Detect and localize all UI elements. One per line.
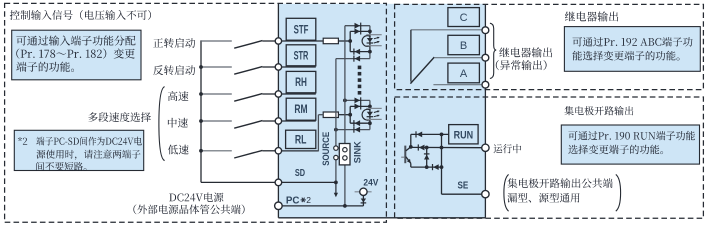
- svg-text:STF: STF: [294, 24, 309, 36]
- label high speed: [168, 91, 189, 101]
- optocoupler LED: [369, 106, 371, 123]
- terminal box RL: [286, 130, 316, 148]
- terminal circle B: [482, 54, 489, 61]
- junction SD rail: [334, 181, 338, 185]
- terminal box C: [448, 8, 480, 27]
- label multi-speed selection: [88, 112, 151, 122]
- optocoupler circle: [362, 36, 371, 47]
- note box 2 (*2): [14, 130, 143, 170]
- collector note box: [561, 125, 699, 164]
- wire outer top branch from sink rail: [345, 99, 370, 101]
- bus junction: [199, 65, 203, 69]
- junction rail B: [343, 99, 347, 103]
- collector: [406, 147, 411, 151]
- terminal box B: [448, 35, 480, 54]
- resistor R-STF: [323, 38, 338, 44]
- sink rail B: [344, 26, 346, 148]
- switch row 4: [201, 120, 232, 122]
- current arrow down: [335, 182, 337, 193]
- junction rail A: [334, 128, 338, 132]
- node junction: [348, 113, 352, 117]
- svg-text:RL: RL: [295, 135, 307, 147]
- RH wire: [278, 93, 315, 95]
- PC wire: [278, 205, 363, 207]
- junction: [368, 50, 372, 54]
- label reverse start: [153, 65, 195, 75]
- label fault output: [496, 60, 547, 70]
- top protection diode loop: [410, 134, 412, 147]
- terminal box STR: [286, 45, 316, 66]
- svg-text:SE: SE: [458, 180, 469, 192]
- svg-text:2: 2: [306, 195, 311, 205]
- control input dashed box: [5, 3, 387, 222]
- RL wire: [278, 150, 318, 152]
- terminal circles: [275, 38, 281, 44]
- jumper pin source bottom: [334, 155, 338, 159]
- label running: [494, 144, 522, 153]
- switch row 1: [201, 40, 232, 42]
- vertical protection diode: [426, 148, 428, 168]
- switch row 3: [201, 93, 232, 95]
- light arrows: [374, 111, 379, 113]
- relay output dashed box: [395, 4, 704, 89]
- node junction: [348, 39, 352, 43]
- wire inner top branch: [350, 105, 370, 107]
- wire input node vertical: [349, 31, 351, 51]
- svg-text:SD: SD: [295, 167, 305, 179]
- switch row 2: [201, 66, 232, 68]
- bracket for relay terminals: [490, 23, 496, 78]
- brace for speed group: [159, 87, 165, 161]
- label relay output: [499, 47, 552, 57]
- wire inner bottom branch: [350, 122, 370, 124]
- relay blade: [410, 57, 434, 84]
- svg-text:C: C: [460, 12, 468, 24]
- emitter arrow: [407, 159, 411, 163]
- terminal circle RUN: [482, 144, 489, 151]
- optocoupler circle: [362, 109, 371, 120]
- svg-text:RM: RM: [294, 104, 307, 116]
- junction PC rail: [343, 204, 347, 208]
- SD terminal circle: [275, 179, 282, 186]
- svg-text:24V: 24V: [363, 177, 379, 188]
- inverter panel (light blue): [278, 4, 485, 218]
- common bus: [200, 40, 202, 182]
- optocoupler receiver lines: [366, 107, 381, 109]
- wire outer top branch from sink rail: [345, 25, 370, 27]
- switch row 5: [201, 150, 232, 152]
- optocoupler receiver lines: [366, 34, 381, 36]
- title control input signals: [10, 10, 151, 20]
- svg-text:SINK: SINK: [353, 141, 363, 163]
- svg-text:RUN: RUN: [454, 129, 474, 141]
- terminal box RUN: [449, 125, 478, 144]
- jumper pin source top: [334, 146, 338, 150]
- label low speed: [168, 145, 189, 155]
- terminal box RH: [286, 71, 316, 92]
- right vertical link: [441, 134, 443, 167]
- wire inner bottom branch: [350, 51, 370, 53]
- collector section title: [564, 106, 633, 115]
- wire outer bottom branch to source rail: [336, 58, 370, 60]
- relay note box: [564, 27, 700, 72]
- RUN wire: [411, 146, 482, 148]
- bus junction: [199, 119, 203, 123]
- asterisk of PC *2 note: [301, 199, 306, 201]
- wire inner top branch: [350, 30, 370, 32]
- wire C: [411, 29, 482, 31]
- label DC24V power: [169, 193, 223, 203]
- label forward start: [153, 38, 195, 48]
- wire A: [433, 84, 481, 86]
- emitter (SE) wire: [411, 166, 442, 168]
- bus junction: [199, 92, 203, 96]
- base lead: [401, 156, 404, 158]
- light arrows: [374, 37, 379, 39]
- ellipsis repeated circuits: [358, 66, 362, 70]
- panel borders: [277, 4, 279, 218]
- svg-text:PC: PC: [286, 194, 300, 206]
- jumper block SINK position: [339, 144, 350, 165]
- svg-text:SOURCE: SOURCE: [321, 132, 331, 166]
- diode to PC: [361, 199, 366, 203]
- STR wire: [278, 66, 315, 68]
- svg-text:A: A: [460, 68, 468, 80]
- RM wire: [278, 120, 315, 122]
- terminal box STF: [286, 18, 316, 40]
- relay section title: [565, 11, 618, 21]
- bus junction: [199, 149, 203, 153]
- terminal box RM: [286, 98, 316, 120]
- svg-text:RH: RH: [295, 77, 307, 89]
- svg-text:STR: STR: [294, 50, 309, 62]
- terminal circle A: [482, 81, 489, 88]
- label middle speed: [168, 118, 188, 128]
- STF wire: [278, 40, 323, 42]
- jumper pin sink bottom: [343, 156, 347, 160]
- SD wire: [201, 181, 336, 183]
- transistor base bar: [404, 146, 406, 164]
- junction: [368, 30, 372, 34]
- wire B: [434, 57, 481, 59]
- emitter: [406, 157, 411, 164]
- junction: [368, 121, 372, 125]
- wire input node vertical: [349, 106, 351, 123]
- collector node: [409, 145, 413, 149]
- optocoupler LED: [369, 31, 371, 51]
- big parentheses: [504, 174, 509, 211]
- jumper pin sink top: [343, 148, 347, 152]
- wire outer bottom branch to source rail: [336, 129, 370, 131]
- terminal circle C: [482, 27, 489, 34]
- resistor R-RL: [323, 112, 338, 118]
- terminal box A: [448, 63, 480, 83]
- PC terminal circle: [275, 202, 283, 210]
- svg-text:B: B: [460, 40, 467, 52]
- RL feed wire: [317, 115, 319, 152]
- source rail A: [335, 59, 337, 146]
- terminal circle SE: [482, 190, 489, 197]
- note box 1: [12, 30, 141, 80]
- open collector dashed box: [395, 97, 704, 218]
- junction: [368, 105, 372, 109]
